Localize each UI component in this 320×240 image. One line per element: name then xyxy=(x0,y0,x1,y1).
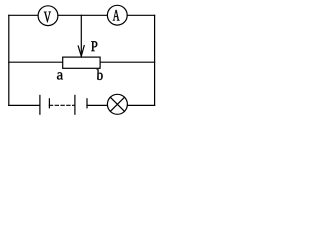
wire top-right segment xyxy=(127,14,154,16)
wire bottom-left segment xyxy=(9,104,40,106)
lamp L1 xyxy=(107,94,127,114)
wire left rail xyxy=(8,15,10,105)
wire battery to lamp xyxy=(87,104,107,106)
ammeter U2 (A) xyxy=(107,5,127,25)
voltmeter U1 (V) xyxy=(38,6,58,26)
wire dashed between cells xyxy=(49,104,75,106)
battery cell 1 short plate xyxy=(48,99,50,108)
wire between voltmeter and ammeter xyxy=(58,14,107,16)
wire middle-right segment xyxy=(100,61,155,63)
label b xyxy=(97,69,103,80)
label P xyxy=(91,41,97,51)
battery cell 2 long plate xyxy=(74,95,76,114)
wire right rail xyxy=(154,15,156,105)
label a xyxy=(57,72,63,79)
wiper arrow of rheostat xyxy=(78,15,84,56)
wire top-left segment xyxy=(9,14,38,16)
battery cell 2 short plate xyxy=(86,99,88,108)
rheostat P body xyxy=(63,57,100,68)
wire bottom-right segment xyxy=(127,104,154,106)
wire middle-left segment xyxy=(9,61,63,63)
battery cell 1 long plate xyxy=(39,95,41,114)
